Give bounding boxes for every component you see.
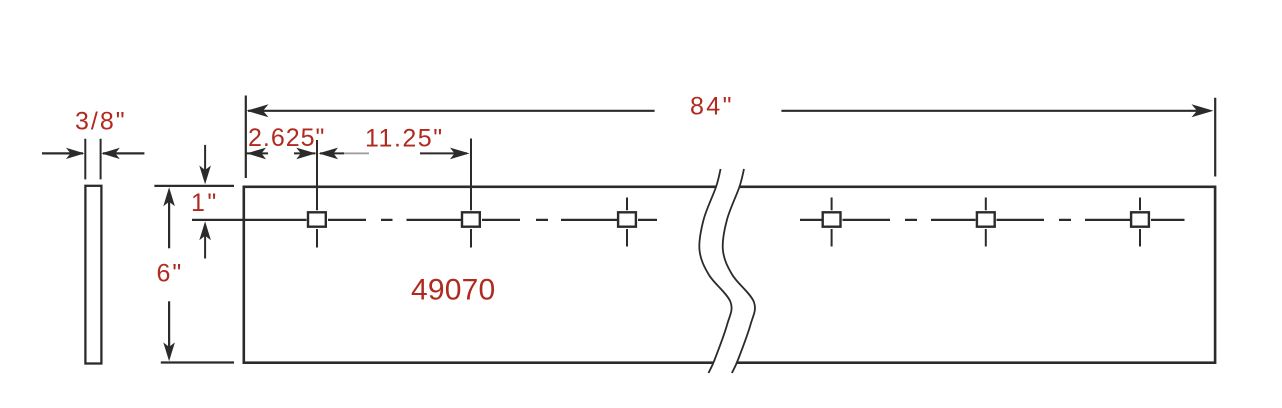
hole 6 square (1131, 212, 1149, 226)
svg-text:2.625": 2.625" (248, 124, 325, 152)
main plate outline (244, 187, 1215, 363)
break band white-out (711, 169, 743, 373)
6" dimension line upper segment with up arrow (168, 192, 170, 248)
break line left (699, 169, 731, 373)
2.625" right arrow (294, 152, 316, 154)
hole 3 vertical stubs (626, 198, 628, 247)
hole 5 square (977, 212, 995, 226)
hole 2 square (462, 212, 480, 226)
84" right arrowhead (1192, 104, 1214, 117)
84" left extension line (245, 96, 247, 179)
hole 4 square (823, 212, 841, 226)
hole 1 vertical line (316, 140, 318, 248)
dimension 3/8" left arrow (42, 152, 83, 154)
svg-text:6": 6" (157, 260, 184, 288)
break line right (723, 169, 755, 373)
svg-text:84": 84" (690, 93, 734, 121)
centerline left section (192, 219, 657, 221)
2.625" left arrow (247, 152, 269, 154)
6" bottom extension line (161, 361, 234, 363)
dimension 3/8" extension lines (85, 139, 100, 180)
11.25" dimension line (320, 152, 344, 154)
1" upper arrow (pointing down) (204, 145, 206, 180)
hole 3 square (618, 212, 636, 226)
6" dimension line lower segment with down arrow (168, 301, 170, 356)
1" top extension line (154, 185, 234, 187)
svg-text:3/8": 3/8" (75, 108, 127, 136)
1" lower arrow (pointing up) (204, 226, 206, 259)
hole 1 square (308, 212, 326, 226)
hole 6 vertical stubs (1139, 198, 1141, 247)
11.25" right arrowhead (450, 148, 470, 160)
84" dimension line (248, 110, 1210, 112)
svg-text:1": 1" (191, 189, 219, 217)
centerline right section (800, 219, 1185, 221)
side view bar (3/8 inch thick end view) (85, 186, 101, 364)
11.25" left arrowhead (319, 148, 339, 160)
hole 4 vertical stubs (831, 198, 833, 247)
hole 5 vertical stubs (985, 198, 987, 247)
svg-text:49070: 49070 (411, 274, 495, 307)
svg-text:11.25": 11.25" (365, 125, 444, 153)
hole 2 vertical line (470, 139, 472, 248)
84" right extension line (1214, 98, 1216, 177)
84" left arrowhead (247, 104, 269, 117)
dimension 3/8" right arrow (103, 152, 144, 154)
